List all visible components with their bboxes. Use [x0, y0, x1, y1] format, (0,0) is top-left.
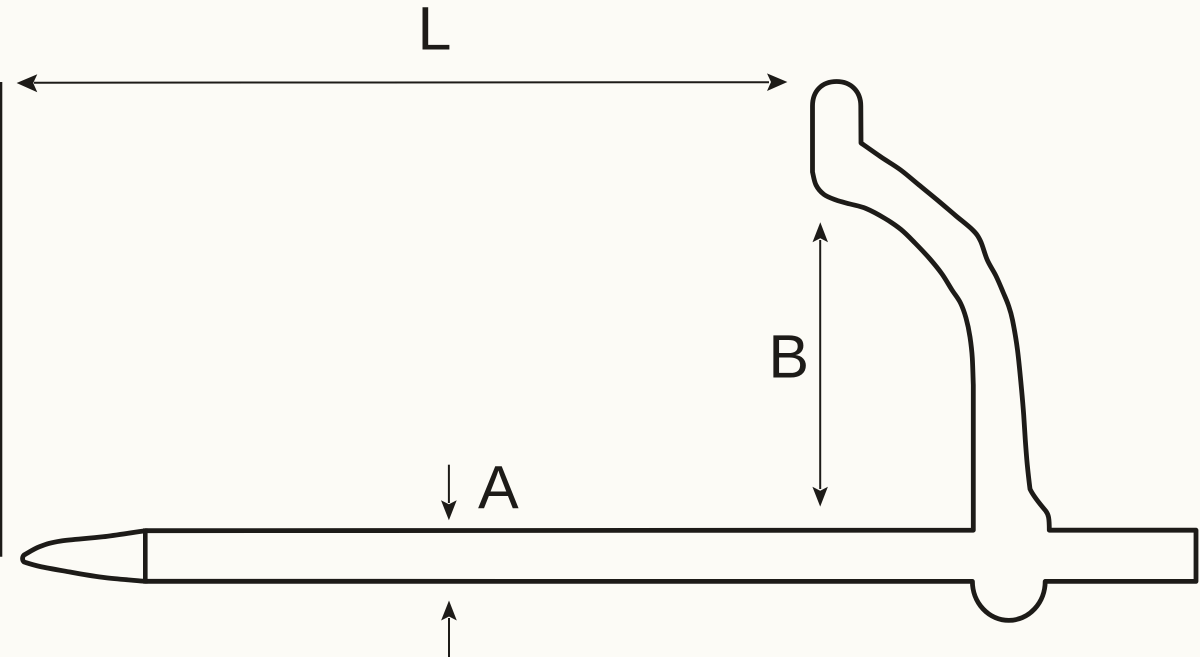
A lower (up) arrow — [448, 618, 450, 657]
L right arrowhead — [767, 73, 787, 91]
B bottom arrowhead — [812, 487, 828, 507]
svg-text:A: A — [478, 454, 519, 522]
svg-text:B: B — [768, 323, 809, 391]
L dimension line — [34, 81, 769, 84]
A upper (down) arrow — [448, 465, 450, 503]
left extension line — [0, 82, 2, 557]
B dimension line — [819, 240, 821, 489]
weld joint line at tip — [143, 528, 148, 583]
svg-text:L: L — [418, 0, 452, 63]
B top arrowhead — [813, 222, 829, 242]
L left arrowhead — [17, 74, 38, 92]
